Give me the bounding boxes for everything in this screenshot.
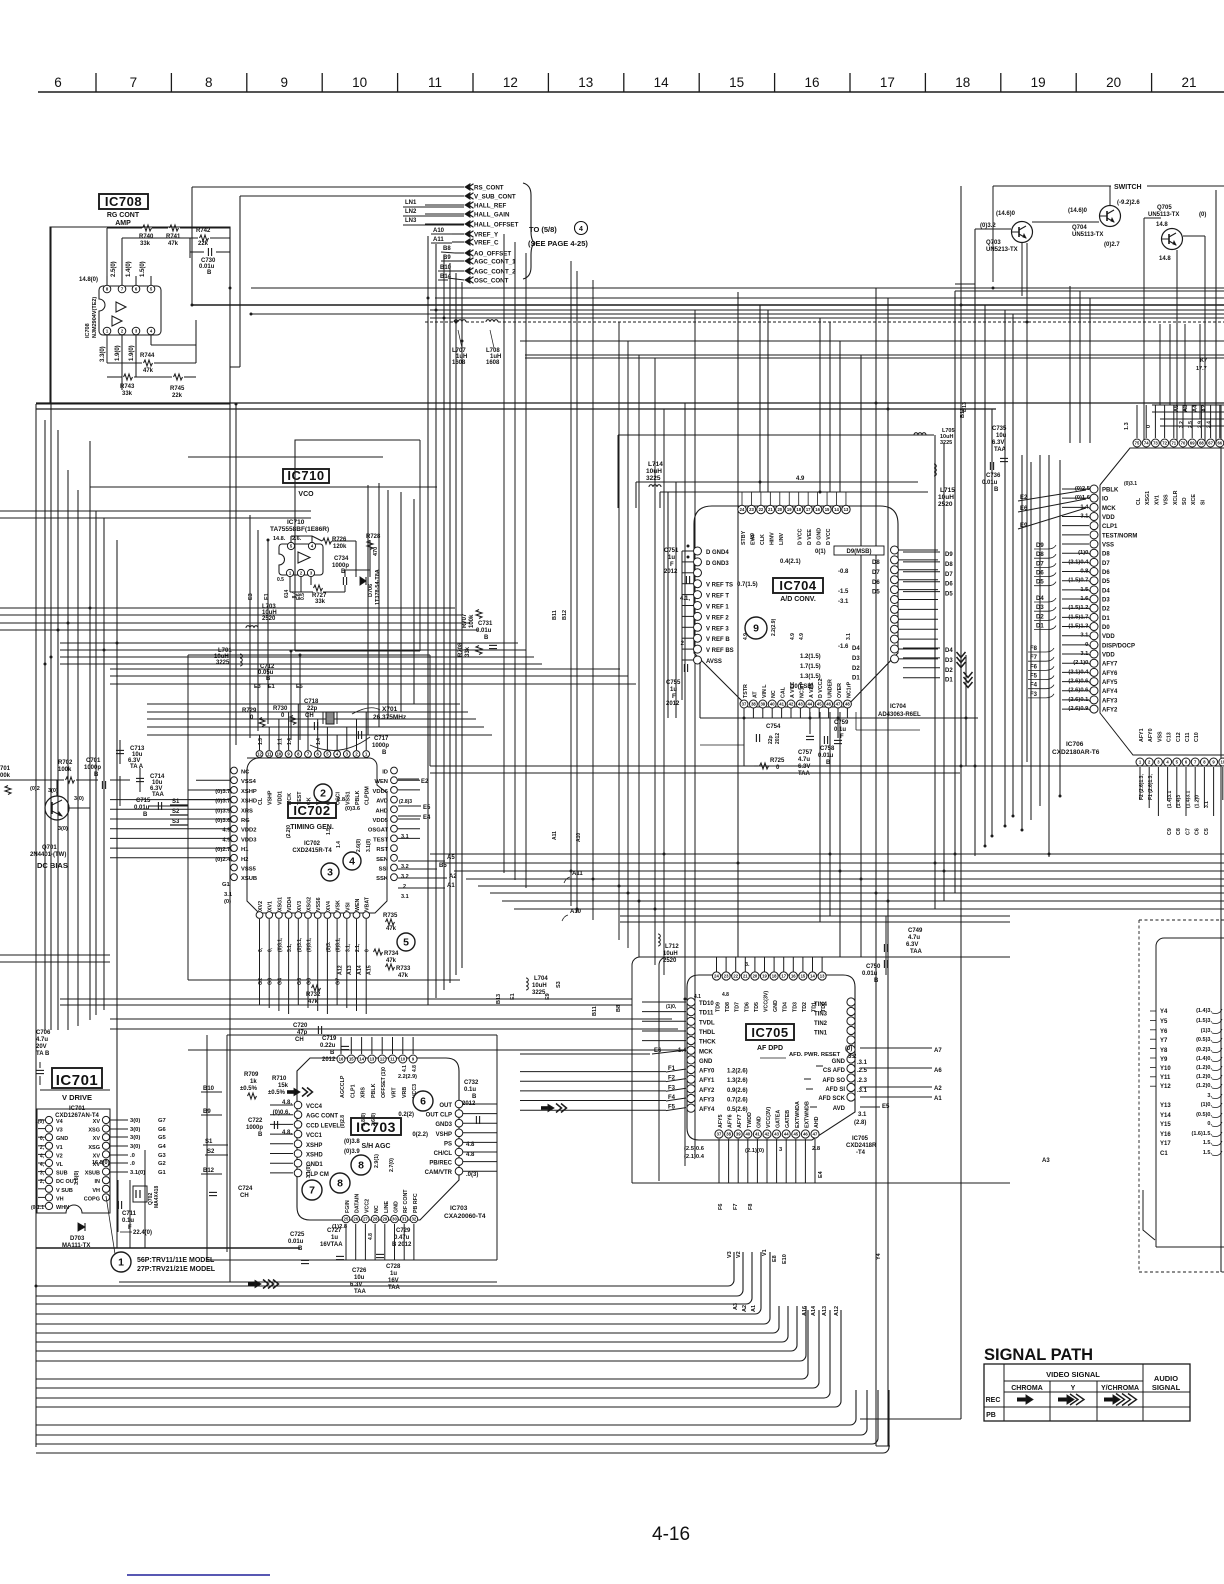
capacitor C749 bbox=[884, 928, 923, 955]
svg-text:0(1): 0(1) bbox=[815, 549, 826, 555]
svg-text:GND: GND bbox=[773, 1000, 779, 1012]
node E9 right bbox=[1018, 508, 1086, 529]
svg-text:S3: S3 bbox=[172, 819, 180, 825]
svg-text:3225: 3225 bbox=[940, 440, 952, 446]
svg-text:(1.2)0,: (1.2)0, bbox=[1196, 1074, 1212, 1080]
svg-text:E2: E2 bbox=[421, 779, 429, 785]
svg-text:2.8: 2.8 bbox=[812, 1146, 821, 1152]
svg-text:A7: A7 bbox=[934, 1048, 942, 1054]
svg-text:6: 6 bbox=[54, 75, 62, 90]
svg-text:0.01u: 0.01u bbox=[862, 971, 878, 977]
svg-text:16: 16 bbox=[791, 974, 796, 979]
svg-text:Y: Y bbox=[1071, 1385, 1076, 1392]
net RS-CONT bbox=[465, 184, 504, 192]
svg-text:0.1u: 0.1u bbox=[464, 1087, 476, 1093]
svg-text:B: B bbox=[143, 812, 148, 818]
svg-text:TA B: TA B bbox=[36, 1051, 50, 1057]
svg-text:R733: R733 bbox=[396, 966, 411, 972]
svg-text:32: 32 bbox=[412, 1217, 417, 1222]
wire top trunk bundle bbox=[192, 288, 1224, 358]
svg-text:D7: D7 bbox=[945, 572, 953, 578]
svg-text:XV1: XV1 bbox=[268, 901, 274, 911]
svg-text:F3: F3 bbox=[1030, 692, 1038, 698]
svg-text:H2: H2 bbox=[241, 857, 248, 863]
svg-text:TD2: TD2 bbox=[802, 1002, 808, 1012]
svg-text:470: 470 bbox=[373, 547, 379, 556]
svg-text:GND: GND bbox=[699, 1059, 713, 1065]
net OSC-CONT bbox=[465, 277, 509, 285]
svg-text:B11: B11 bbox=[592, 1006, 598, 1016]
net AO-OFFSET bbox=[465, 250, 511, 258]
IC704 top pin labels bbox=[741, 528, 832, 545]
svg-text:GND: GND bbox=[832, 1059, 846, 1065]
wire left ladder bundle D bbox=[110, 669, 636, 684]
wire IC710 enclosure bbox=[295, 440, 420, 651]
svg-text:NC1rP: NC1rP bbox=[846, 681, 852, 698]
svg-text:A5: A5 bbox=[447, 855, 455, 861]
svg-text:Y8: Y8 bbox=[1160, 1048, 1168, 1054]
svg-text:1608: 1608 bbox=[486, 360, 500, 366]
svg-text:1.1: 1.1 bbox=[277, 738, 283, 745]
svg-text:SIGNAL PATH: SIGNAL PATH bbox=[984, 1346, 1093, 1364]
resistor R730 bbox=[273, 706, 296, 725]
svg-text:VBAT: VBAT bbox=[365, 896, 371, 911]
svg-text:IC705: IC705 bbox=[852, 1136, 869, 1142]
IC706 left pins bbox=[1090, 485, 1098, 713]
svg-text:WEN: WEN bbox=[374, 779, 388, 785]
svg-text:(0)3.6: (0)3.6 bbox=[345, 806, 361, 812]
svg-text:C8: C8 bbox=[1176, 828, 1182, 835]
svg-text:IC702: IC702 bbox=[293, 803, 330, 818]
capacitor C722 bbox=[246, 1118, 278, 1138]
callout 8b bbox=[351, 1155, 371, 1175]
footer link line bbox=[127, 1574, 270, 1576]
wire IC702 left pin leads bbox=[110, 780, 230, 858]
svg-text:16: 16 bbox=[339, 1057, 344, 1062]
svg-text:B13: B13 bbox=[496, 994, 502, 1004]
wire IC708 fan verticals bbox=[368, 236, 462, 1005]
svg-text:GND3: GND3 bbox=[435, 1122, 452, 1128]
svg-text:B: B bbox=[298, 1246, 303, 1252]
capacitor C751 bbox=[664, 548, 690, 584]
svg-text:2.9: 2.9 bbox=[1197, 421, 1203, 428]
wire Q701 area bbox=[0, 740, 188, 850]
node A2 bbox=[398, 874, 457, 880]
svg-text:C1: C1 bbox=[1160, 1151, 1168, 1157]
svg-text:2520: 2520 bbox=[262, 616, 276, 622]
svg-text:27P:TRV21/21E MODEL: 27P:TRV21/21E MODEL bbox=[137, 1266, 216, 1273]
svg-text:.0: .0 bbox=[130, 1153, 135, 1159]
svg-text:EXTWNDA: EXTWNDA bbox=[795, 1101, 801, 1128]
svg-text:3.1(0): 3.1(0) bbox=[366, 839, 372, 852]
svg-text:VH: VH bbox=[56, 1196, 64, 1202]
svg-text:(1.5)3,: (1.5)3, bbox=[1196, 1018, 1212, 1024]
IC702 bottom pins bbox=[256, 912, 370, 919]
svg-text:1000p: 1000p bbox=[84, 765, 101, 771]
IC701 right pin labels bbox=[74, 1119, 100, 1202]
capacitor C720 bbox=[293, 1023, 322, 1043]
svg-text:9: 9 bbox=[280, 75, 288, 90]
svg-text:23: 23 bbox=[749, 507, 754, 512]
svg-text:4.7u: 4.7u bbox=[798, 757, 810, 763]
svg-text:2: 2 bbox=[403, 884, 406, 890]
svg-text:10uH: 10uH bbox=[938, 494, 954, 501]
svg-text:Y16: Y16 bbox=[1160, 1132, 1171, 1138]
svg-text:3: 3 bbox=[327, 867, 333, 879]
svg-text:3.1: 3.1 bbox=[401, 894, 409, 900]
capacitor C736 bbox=[982, 462, 1001, 493]
wire IC704 bottom bbox=[700, 662, 978, 766]
svg-text:V4: V4 bbox=[56, 1119, 64, 1125]
svg-text:R709: R709 bbox=[244, 1072, 259, 1078]
net VREF-Y bbox=[465, 231, 499, 239]
svg-text:VSS1: VSS1 bbox=[345, 791, 351, 805]
svg-text:22k: 22k bbox=[198, 241, 209, 247]
svg-text:4.1: 4.1 bbox=[402, 1065, 408, 1072]
svg-text:6.3V: 6.3V bbox=[992, 440, 1004, 446]
IC705 left pin labels bbox=[678, 1001, 748, 1113]
svg-text:17: 17 bbox=[880, 75, 895, 90]
svg-text:IC708: IC708 bbox=[85, 323, 91, 338]
svg-text:-T4: -T4 bbox=[856, 1150, 866, 1156]
svg-text:21: 21 bbox=[1181, 75, 1196, 90]
svg-text:TIN1: TIN1 bbox=[814, 1031, 828, 1037]
wire lower band bundle bbox=[60, 999, 684, 1050]
IC706 top pin labels bbox=[1124, 421, 1213, 505]
svg-text:CXD2418R: CXD2418R bbox=[846, 1143, 877, 1149]
svg-text:AVD: AVD bbox=[376, 799, 388, 805]
svg-text:3.1: 3.1 bbox=[858, 1112, 867, 1118]
svg-text:68: 68 bbox=[1199, 441, 1204, 446]
svg-text:45: 45 bbox=[817, 702, 822, 707]
svg-text:0,: 0, bbox=[1207, 1121, 1212, 1127]
svg-text:PBLK: PBLK bbox=[355, 790, 361, 805]
svg-text:4.1: 4.1 bbox=[694, 994, 701, 1000]
svg-text:TWDD: TWDD bbox=[747, 1112, 753, 1128]
node E2 bbox=[398, 779, 429, 785]
svg-text:16: 16 bbox=[815, 507, 820, 512]
IC701 left pin labels bbox=[31, 1119, 78, 1211]
svg-text:22p: 22p bbox=[307, 706, 318, 712]
svg-text:TIN2: TIN2 bbox=[814, 1021, 828, 1027]
svg-text:V REF 1: V REF 1 bbox=[706, 605, 729, 611]
wire IC708 circuit bbox=[107, 228, 230, 390]
svg-text:73: 73 bbox=[1153, 441, 1158, 446]
node A5 A3 A4 A2 top bbox=[1174, 404, 1208, 412]
svg-text:.3.1: .3.1 bbox=[857, 1060, 868, 1066]
svg-text:CXD2180AR-T6: CXD2180AR-T6 bbox=[1052, 749, 1100, 756]
svg-text:1000p: 1000p bbox=[246, 1125, 263, 1131]
svg-text:IO: IO bbox=[1102, 497, 1109, 503]
svg-text:NC: NC bbox=[771, 690, 777, 698]
svg-text:CH: CH bbox=[240, 1193, 249, 1199]
svg-text:AGC_CONT_1: AGC_CONT_1 bbox=[474, 259, 516, 266]
svg-text:AFY1: AFY1 bbox=[1139, 728, 1145, 742]
resistor R745 bbox=[170, 374, 185, 399]
svg-text:(2.1)0.4: (2.1)0.4 bbox=[684, 1154, 705, 1160]
svg-text:HALL_GAIN: HALL_GAIN bbox=[474, 212, 510, 219]
wire IC703 bottom feeders bbox=[346, 1224, 414, 1260]
svg-text:42: 42 bbox=[765, 1132, 770, 1137]
inductor L715 bbox=[934, 464, 955, 508]
svg-text:3.3(0): 3.3(0) bbox=[74, 1170, 80, 1185]
svg-text:1.5,: 1.5, bbox=[1203, 1140, 1213, 1146]
label IC701 name bbox=[52, 1068, 102, 1119]
svg-text:10uH: 10uH bbox=[663, 951, 678, 957]
svg-text:F5: F5 bbox=[1030, 674, 1038, 680]
svg-text:XRS: XRS bbox=[241, 808, 253, 814]
diode D703 bbox=[62, 1223, 90, 1249]
svg-text:D2: D2 bbox=[852, 666, 860, 672]
svg-text:D5: D5 bbox=[945, 592, 953, 598]
svg-text:(1.4)0,: (1.4)0, bbox=[1196, 1056, 1212, 1062]
svg-text:C706: C706 bbox=[36, 1030, 51, 1036]
callout 7 bbox=[302, 1180, 322, 1200]
capacitor C706 bbox=[36, 1030, 51, 1085]
IC704 bottom pins bbox=[740, 700, 851, 708]
node E2 E5 E9 hooks mid bbox=[254, 684, 303, 690]
wire IC708 enclosure bbox=[36, 227, 230, 404]
svg-text:D VEE: D VEE bbox=[807, 529, 813, 545]
IC701 left pins bbox=[45, 1116, 52, 1209]
svg-text:38: 38 bbox=[726, 1132, 731, 1137]
svg-text:C758: C758 bbox=[820, 746, 835, 752]
callout 1 model note bbox=[106, 1196, 216, 1273]
svg-text:GND: GND bbox=[394, 1201, 400, 1213]
svg-text:2012: 2012 bbox=[664, 569, 678, 575]
svg-text:C751: C751 bbox=[664, 548, 679, 554]
node E5 bbox=[398, 805, 431, 811]
svg-text:(-9.2)2.6: (-9.2)2.6 bbox=[1117, 200, 1140, 206]
resistor R733 bbox=[386, 964, 412, 979]
wire left ladder bundle E bbox=[147, 704, 492, 735]
svg-text:1k: 1k bbox=[250, 1079, 257, 1085]
svg-text:B: B bbox=[382, 750, 387, 756]
IC706 left pin labels bbox=[1068, 486, 1137, 714]
svg-text:4: 4 bbox=[579, 226, 583, 233]
svg-text:B 2012: B 2012 bbox=[392, 1242, 412, 1248]
svg-text:WHN: WHN bbox=[56, 1205, 69, 1211]
svg-text:TD6: TD6 bbox=[744, 1002, 750, 1012]
svg-text:HINV: HINV bbox=[769, 532, 775, 545]
svg-text:AF DPD: AF DPD bbox=[757, 1045, 783, 1052]
node E5 IC705 bbox=[860, 1104, 890, 1110]
svg-text:IC705: IC705 bbox=[751, 1025, 788, 1040]
svg-text:E1: E1 bbox=[264, 593, 270, 600]
svg-text:0.01u: 0.01u bbox=[134, 805, 150, 811]
svg-text:F6: F6 bbox=[718, 1204, 724, 1210]
svg-text:20: 20 bbox=[753, 974, 758, 979]
svg-text:VCO: VCO bbox=[298, 491, 314, 498]
svg-text:G4: G4 bbox=[158, 1144, 167, 1150]
svg-text:VRT: VRT bbox=[392, 1087, 398, 1098]
svg-text:CL: CL bbox=[258, 797, 264, 805]
svg-text:D0: D0 bbox=[1102, 625, 1110, 631]
svg-text:VREF_C: VREF_C bbox=[474, 240, 499, 247]
svg-text:(1)0,: (1)0, bbox=[666, 1004, 677, 1010]
resistor R709 bbox=[240, 1072, 259, 1099]
capacitor C758 bbox=[818, 740, 842, 766]
svg-text:D6: D6 bbox=[1036, 571, 1044, 577]
svg-text:VCC(3V): VCC(3V) bbox=[766, 1107, 772, 1128]
svg-text:R740: R740 bbox=[139, 234, 154, 240]
svg-text:(1.2)0,: (1.2)0, bbox=[1196, 1083, 1212, 1089]
svg-text:3225: 3225 bbox=[216, 660, 230, 666]
svg-text:CLP1: CLP1 bbox=[350, 1084, 356, 1098]
resistor R743 bbox=[120, 374, 135, 397]
capacitor C726 bbox=[350, 1268, 367, 1295]
svg-text:E8: E8 bbox=[772, 1255, 778, 1262]
svg-text:66: 66 bbox=[1217, 441, 1222, 446]
svg-text:6.3V: 6.3V bbox=[798, 764, 810, 770]
svg-text:AFY0: AFY0 bbox=[699, 1069, 715, 1075]
svg-text:1u: 1u bbox=[670, 687, 677, 693]
IC701 right net labels G1-G7 bbox=[110, 1118, 167, 1176]
svg-text:0,: 0, bbox=[258, 947, 264, 952]
svg-text:C13: C13 bbox=[1167, 732, 1173, 742]
svg-text:CHROMA: CHROMA bbox=[1011, 1385, 1043, 1392]
svg-text:.0(3): .0(3) bbox=[466, 1172, 478, 1178]
svg-text:VDD: VDD bbox=[1102, 653, 1115, 659]
svg-text:VDD: VDD bbox=[1102, 634, 1115, 640]
svg-text:CH: CH bbox=[295, 1037, 304, 1043]
svg-text:14: 14 bbox=[834, 507, 839, 512]
capacitor C717 bbox=[310, 731, 389, 756]
value labels Q704 bbox=[1068, 200, 1140, 248]
svg-text:VREF_Y: VREF_Y bbox=[474, 232, 499, 239]
svg-text:VSS5: VSS5 bbox=[241, 867, 257, 873]
wire dashed connector box bbox=[1139, 920, 1224, 1272]
node B10 bbox=[201, 1086, 222, 1092]
svg-text:C754: C754 bbox=[766, 724, 781, 730]
bus stub labels A3 A2 A1 A16 A14 A13 A12 bbox=[733, 1303, 840, 1316]
wire far right verticals bbox=[1022, 190, 1221, 1272]
node E6 right bbox=[1018, 499, 1086, 512]
svg-text:6: 6 bbox=[420, 1096, 426, 1108]
node B11 B12 labels bbox=[552, 610, 568, 620]
node Y4 label bbox=[876, 1252, 882, 1260]
svg-text:(1)0,: (1)0, bbox=[1201, 1102, 1213, 1108]
svg-text:D GND: D GND bbox=[817, 528, 823, 545]
resistor R734 bbox=[374, 949, 400, 964]
svg-text:F7: F7 bbox=[1030, 655, 1038, 661]
wire IC705 enclosure bbox=[632, 957, 1010, 1183]
bus stub labels V3 V2 V1 E8 E10 bbox=[727, 1249, 788, 1264]
wire IC706 bottom feeders bbox=[1140, 767, 1223, 816]
svg-text:71: 71 bbox=[1171, 441, 1176, 446]
node A6 bbox=[860, 1068, 942, 1074]
svg-text:AFY2: AFY2 bbox=[699, 1088, 715, 1094]
svg-text:AFY3: AFY3 bbox=[699, 1098, 715, 1104]
svg-text:Q701: Q701 bbox=[42, 845, 57, 851]
wire right verticals bbox=[668, 186, 1013, 1446]
svg-text:AHD: AHD bbox=[814, 1116, 820, 1128]
svg-text:C727: C727 bbox=[327, 1228, 342, 1234]
svg-text:A/D CONV.: A/D CONV. bbox=[780, 596, 816, 603]
svg-text:S1: S1 bbox=[205, 1139, 213, 1145]
svg-text:0.9(2.6): 0.9(2.6) bbox=[727, 1088, 748, 1094]
svg-text:(1.2)0,: (1.2)0, bbox=[1196, 1065, 1212, 1071]
svg-text:R730: R730 bbox=[273, 706, 288, 712]
svg-text:72: 72 bbox=[1162, 441, 1167, 446]
svg-text:13: 13 bbox=[578, 75, 593, 90]
svg-text:19: 19 bbox=[787, 507, 792, 512]
capacitor C718 bbox=[304, 699, 319, 730]
svg-text:AFY5: AFY5 bbox=[718, 1114, 724, 1128]
IC702 top pins bbox=[256, 751, 370, 758]
svg-text:R745: R745 bbox=[170, 386, 185, 392]
label IC703 name bbox=[351, 1118, 486, 1220]
svg-text:B: B bbox=[826, 760, 831, 766]
resistor R728 bbox=[366, 534, 381, 556]
svg-text:.2.3: .2.3 bbox=[857, 1078, 868, 1084]
svg-text:V DRIVE: V DRIVE bbox=[62, 1093, 92, 1102]
svg-text:LINE: LINE bbox=[384, 1200, 390, 1213]
svg-text:1.5,: 1.5, bbox=[1203, 1150, 1213, 1156]
IC U IC703 S/H AGC bbox=[297, 1058, 459, 1220]
svg-text:RST: RST bbox=[376, 847, 388, 853]
wire switch area bbox=[955, 186, 1205, 762]
resistor R742 bbox=[196, 228, 211, 247]
svg-text:C726: C726 bbox=[352, 1268, 367, 1274]
svg-text:TAA: TAA bbox=[798, 771, 811, 777]
svg-text:GATEB: GATEB bbox=[785, 1110, 791, 1128]
label TO (5/8) bbox=[528, 222, 588, 249]
svg-text:TA75558BF(1E86R): TA75558BF(1E86R) bbox=[270, 526, 329, 533]
svg-text:D5: D5 bbox=[1102, 579, 1110, 585]
capacitor C750 bbox=[862, 960, 888, 984]
svg-text:37: 37 bbox=[717, 1132, 722, 1137]
svg-text:XSHP: XSHP bbox=[306, 1143, 322, 1149]
svg-text:26: 26 bbox=[353, 1217, 358, 1222]
svg-text:AHD: AHD bbox=[375, 808, 388, 814]
capacitor C712 bbox=[258, 664, 275, 682]
svg-text:AUDIO: AUDIO bbox=[1154, 1374, 1178, 1383]
svg-text:2520: 2520 bbox=[938, 501, 953, 508]
resistor R725 bbox=[760, 758, 786, 771]
svg-text:SSK: SSK bbox=[376, 876, 389, 882]
net AGC-CONT-2 bbox=[465, 268, 516, 276]
IC704 right pins bbox=[891, 546, 899, 663]
IC704 bottom pin labels bbox=[743, 618, 852, 698]
IC703 top pin labels bbox=[340, 1065, 418, 1128]
svg-text:15: 15 bbox=[349, 1057, 354, 1062]
svg-text:A11: A11 bbox=[552, 831, 558, 840]
svg-text:1.3: 1.3 bbox=[258, 738, 264, 745]
wire right connector leads bbox=[1150, 1011, 1156, 1086]
svg-text:701: 701 bbox=[0, 766, 11, 772]
svg-text:(0)3.1: (0)3.1 bbox=[1124, 481, 1137, 487]
inductor L704 bbox=[526, 976, 548, 996]
svg-text:UN5213-TX: UN5213-TX bbox=[986, 247, 1018, 253]
svg-text:13: 13 bbox=[820, 974, 825, 979]
svg-text:LINV: LINV bbox=[779, 532, 785, 545]
svg-text:48: 48 bbox=[845, 702, 850, 707]
svg-text:GATEA: GATEA bbox=[776, 1110, 782, 1128]
svg-text:D3: D3 bbox=[945, 658, 953, 664]
svg-text:B: B bbox=[472, 1094, 477, 1100]
IC705 right pin labels bbox=[804, 1002, 868, 1126]
svg-text:TSTR: TSTR bbox=[743, 684, 749, 698]
svg-text:D4: D4 bbox=[945, 648, 953, 654]
svg-text:E10: E10 bbox=[782, 1254, 788, 1264]
svg-text:43: 43 bbox=[798, 702, 803, 707]
svg-text:19: 19 bbox=[762, 974, 767, 979]
svg-text:(1.6)1.5,: (1.6)1.5, bbox=[1192, 1131, 1213, 1137]
IC702 right pins bbox=[391, 767, 398, 881]
svg-text:C720: C720 bbox=[293, 1023, 308, 1029]
svg-text:3225: 3225 bbox=[532, 990, 546, 996]
